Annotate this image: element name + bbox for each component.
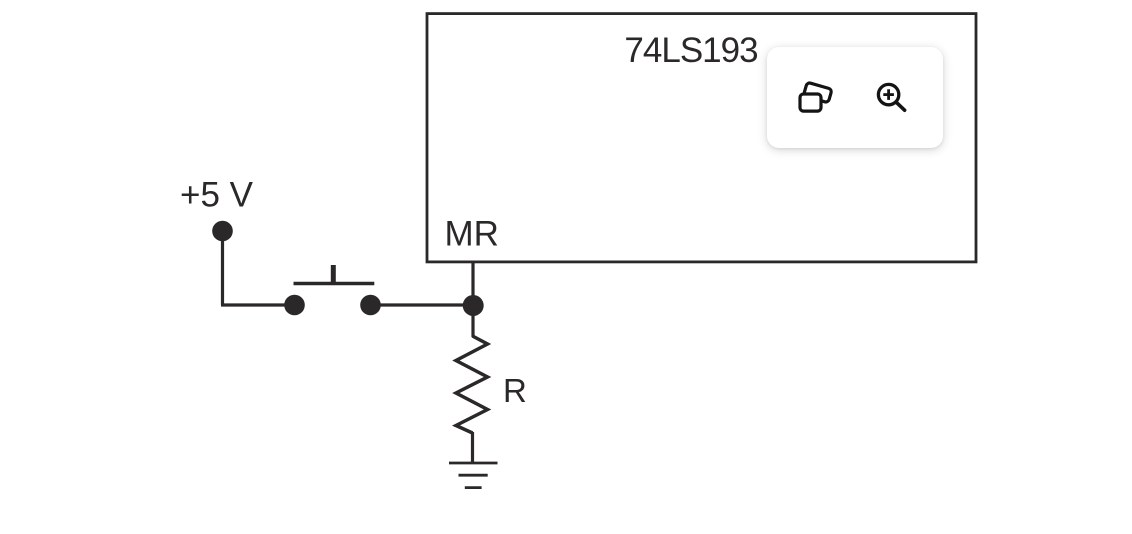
wire from node A down to resistor <box>471 305 474 337</box>
+5V supply terminal dot <box>212 221 233 242</box>
pushbutton S1 actuator bar <box>294 282 375 285</box>
svg-text:R: R <box>503 372 527 409</box>
svg-text:+5 V: +5 V <box>180 176 254 215</box>
node A junction dot <box>463 295 484 316</box>
IC U1 74LS193 body <box>427 14 976 262</box>
switch S1 right contact dot <box>360 295 381 316</box>
wire from MR pin down to node A <box>471 261 474 305</box>
pushbutton S1 actuator stub <box>331 265 336 284</box>
switch S1 left contact dot <box>284 295 305 316</box>
copy-pages icon <box>793 75 841 123</box>
wire from switch right contact to node A <box>371 303 474 306</box>
pin label MR <box>445 215 499 254</box>
resistor R zigzag <box>456 336 488 433</box>
ground symbol <box>449 463 498 488</box>
wire from +5V corner to switch left contact <box>221 303 295 306</box>
wire from resistor to ground <box>471 432 474 463</box>
toolbar overlay card <box>767 47 943 148</box>
zoom-in magnifier icon <box>870 78 918 126</box>
label +5 V <box>180 176 254 215</box>
svg-text:MR: MR <box>445 215 499 254</box>
label 74LS193 <box>624 31 757 70</box>
svg-text:74LS193: 74LS193 <box>624 31 757 70</box>
label R <box>503 372 527 409</box>
wire from +5V terminal down <box>221 231 224 305</box>
